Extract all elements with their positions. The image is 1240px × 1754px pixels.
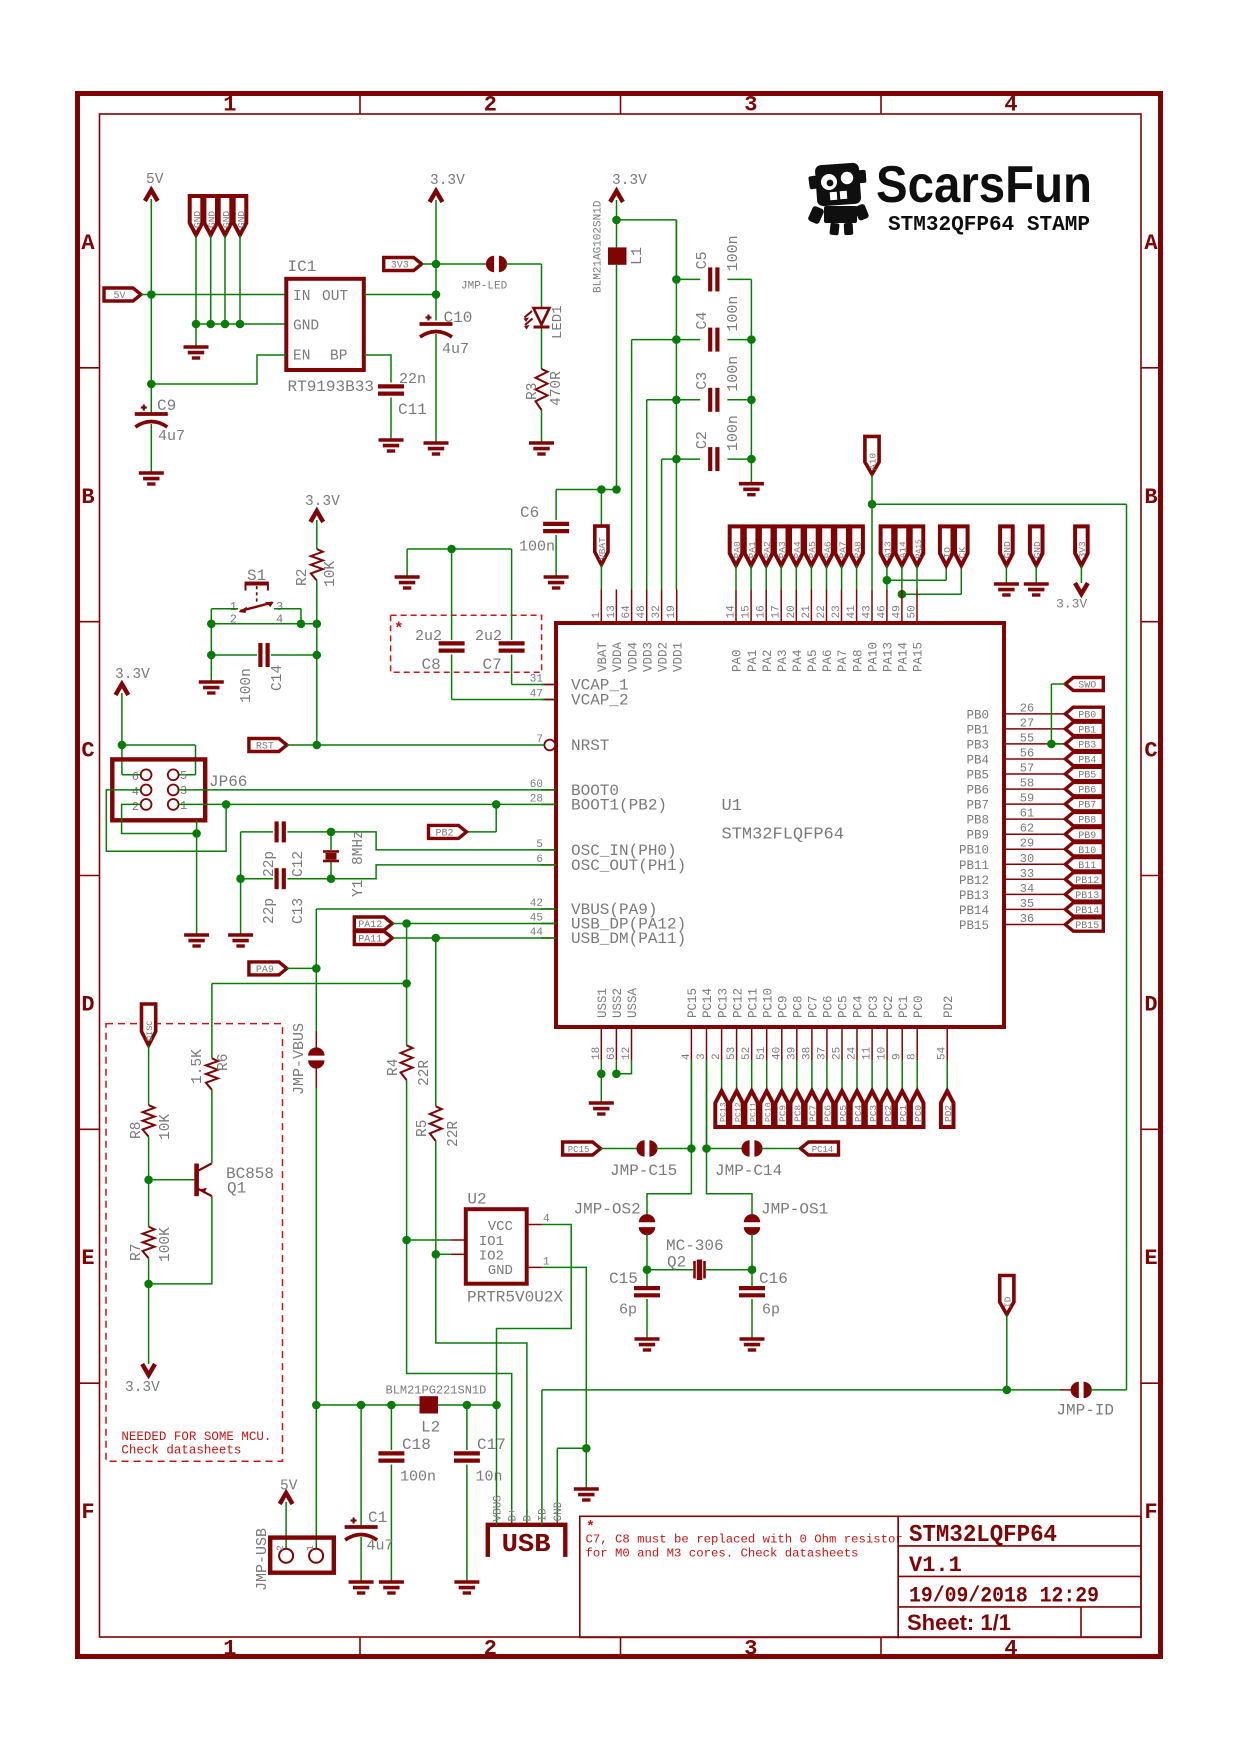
svg-text:PRTR5V0U2X: PRTR5V0U2X	[467, 1289, 563, 1307]
svg-text:PA8: PA8	[852, 541, 863, 558]
svg-text:JMP-C15: JMP-C15	[610, 1162, 677, 1180]
svg-text:4: 4	[1004, 93, 1017, 118]
svg-text:VDD2: VDD2	[656, 642, 670, 672]
svg-text:PB4: PB4	[966, 754, 989, 768]
svg-text:USS1: USS1	[596, 988, 610, 1018]
svg-text:PC0: PC0	[913, 1105, 924, 1122]
svg-text:PB7: PB7	[966, 799, 989, 813]
svg-text:IO: IO	[942, 547, 953, 559]
svg-text:R4: R4	[386, 1059, 402, 1076]
svg-text:D: D	[1144, 992, 1157, 1017]
svg-text:PB12: PB12	[1075, 876, 1099, 887]
svg-text:DISC: DISC	[145, 1021, 155, 1041]
svg-text:8MHz: 8MHz	[351, 830, 367, 865]
svg-text:C13: C13	[291, 898, 307, 924]
svg-text:MC-306: MC-306	[666, 1237, 724, 1255]
svg-text:VBAT: VBAT	[596, 641, 610, 672]
svg-text:PA8: PA8	[851, 649, 865, 672]
svg-text:GND: GND	[553, 1501, 565, 1521]
svg-text:22p: 22p	[262, 851, 278, 877]
svg-text:100n: 100n	[725, 235, 742, 271]
svg-text:40: 40	[771, 1047, 783, 1060]
svg-text:PC9: PC9	[778, 1105, 789, 1122]
svg-text:PB7: PB7	[1078, 801, 1096, 812]
svg-text:50: 50	[907, 605, 919, 618]
svg-text:A13: A13	[883, 541, 894, 558]
svg-text:A: A	[81, 231, 95, 256]
svg-text:E: E	[81, 1246, 94, 1271]
svg-text:5: 5	[180, 769, 187, 783]
svg-text:PC6: PC6	[823, 1105, 834, 1122]
svg-text:PB15: PB15	[959, 919, 989, 933]
svg-text:59: 59	[1020, 792, 1034, 806]
svg-text:GND: GND	[1002, 541, 1013, 558]
svg-text:R8: R8	[129, 1122, 145, 1139]
svg-text:23: 23	[831, 605, 843, 618]
svg-text:PA6: PA6	[822, 541, 833, 558]
svg-text:38: 38	[801, 1047, 813, 1060]
svg-text:33: 33	[1020, 867, 1034, 881]
svg-text:STM32FLQFP64: STM32FLQFP64	[722, 826, 844, 845]
svg-text:31: 31	[530, 674, 544, 686]
svg-text:Q1: Q1	[227, 1180, 246, 1198]
svg-text:OUT: OUT	[322, 289, 348, 305]
svg-text:PC4: PC4	[852, 995, 866, 1018]
svg-text:100n: 100n	[239, 668, 255, 703]
svg-text:47: 47	[530, 689, 543, 701]
svg-text:5V: 5V	[113, 291, 125, 302]
svg-text:PA0: PA0	[732, 541, 743, 558]
svg-text:VDD4: VDD4	[626, 642, 640, 672]
svg-text:22n: 22n	[399, 371, 426, 388]
svg-text:PC10: PC10	[761, 988, 775, 1018]
svg-text:15: 15	[741, 605, 753, 618]
svg-text:3.3V: 3.3V	[115, 667, 150, 683]
svg-text:470R: 470R	[549, 371, 565, 406]
svg-text:3.3V: 3.3V	[125, 1380, 160, 1396]
svg-text:46: 46	[876, 605, 888, 618]
svg-text:PC7: PC7	[807, 995, 821, 1018]
svg-text:PB12: PB12	[959, 874, 989, 888]
svg-text:VDD3: VDD3	[641, 642, 655, 672]
svg-text:PC6: PC6	[822, 995, 836, 1018]
svg-text:IN: IN	[293, 289, 310, 305]
svg-text:2: 2	[132, 800, 139, 814]
svg-text:13: 13	[606, 605, 618, 618]
svg-text:PC13: PC13	[716, 988, 730, 1018]
svg-text:PB13: PB13	[1075, 891, 1099, 902]
svg-text:D+: D+	[508, 1508, 520, 1521]
svg-text:Q2: Q2	[667, 1254, 686, 1272]
svg-text:26: 26	[1020, 701, 1034, 715]
svg-text:L1: L1	[629, 247, 646, 265]
svg-text:C3: C3	[694, 372, 711, 390]
svg-text:JMP-USB: JMP-USB	[254, 1528, 271, 1591]
svg-text:PC13: PC13	[719, 1102, 728, 1122]
svg-text:22R: 22R	[446, 1121, 462, 1147]
svg-text:JMP-C14: JMP-C14	[715, 1162, 782, 1180]
svg-text:EN: EN	[293, 349, 310, 365]
svg-text:5V: 5V	[280, 1479, 298, 1495]
svg-text:PB10: PB10	[959, 844, 989, 858]
svg-text:20: 20	[786, 605, 798, 618]
svg-text:PC3: PC3	[867, 995, 881, 1018]
svg-text:PB14: PB14	[1075, 906, 1099, 917]
svg-text:NEEDED FOR SOME MCU.: NEEDED FOR SOME MCU.	[121, 1430, 271, 1444]
svg-text:GND: GND	[236, 211, 247, 228]
svg-text:6: 6	[536, 854, 543, 866]
svg-text:PB14: PB14	[959, 904, 989, 918]
svg-text:PA11: PA11	[358, 935, 382, 946]
svg-text:D-: D-	[523, 1508, 535, 1521]
svg-text:PC1: PC1	[897, 995, 911, 1018]
svg-text:17: 17	[771, 605, 783, 618]
svg-text:PC0: PC0	[912, 995, 926, 1018]
svg-text:U2: U2	[467, 1191, 486, 1209]
svg-text:L2: L2	[421, 1419, 440, 1437]
svg-text:GND: GND	[221, 211, 232, 228]
svg-text:57: 57	[1020, 762, 1034, 776]
svg-text:6: 6	[132, 770, 139, 784]
svg-text:35: 35	[1020, 897, 1034, 911]
svg-text:PA3: PA3	[776, 649, 790, 672]
svg-text:IC1: IC1	[288, 258, 317, 276]
svg-text:PC11: PC11	[746, 988, 760, 1018]
svg-text:GND: GND	[207, 211, 218, 228]
svg-text:32: 32	[651, 605, 663, 618]
svg-text:JMP-OS1: JMP-OS1	[761, 1201, 828, 1219]
svg-text:100n: 100n	[725, 296, 742, 332]
svg-text:3.3V: 3.3V	[430, 173, 465, 189]
svg-text:28: 28	[530, 793, 543, 805]
svg-text:USSA: USSA	[626, 987, 640, 1018]
svg-text:2: 2	[276, 1545, 287, 1551]
svg-text:C5: C5	[694, 251, 711, 269]
svg-text:45: 45	[530, 913, 543, 925]
svg-text:PB0: PB0	[1078, 711, 1096, 722]
svg-text:58: 58	[1020, 777, 1034, 791]
svg-text:19/09/2018 12:29: 19/09/2018 12:29	[909, 1584, 1099, 1609]
svg-text:B: B	[81, 485, 94, 510]
svg-text:PA15: PA15	[912, 642, 926, 672]
svg-text:RT9193B33: RT9193B33	[288, 378, 374, 396]
svg-text:PA13: PA13	[882, 642, 896, 672]
svg-text:B10: B10	[1078, 846, 1096, 857]
svg-text:60: 60	[530, 779, 543, 791]
svg-text:A: A	[1144, 231, 1158, 256]
svg-text:3: 3	[180, 784, 187, 798]
svg-text:C8: C8	[422, 656, 441, 674]
svg-text:100n: 100n	[400, 1469, 436, 1486]
svg-text:PB15: PB15	[1075, 921, 1099, 932]
svg-text:PA7: PA7	[836, 649, 850, 672]
svg-text:C: C	[81, 739, 94, 764]
svg-text:R6: R6	[216, 1054, 232, 1071]
svg-text:4u7: 4u7	[367, 1538, 394, 1555]
svg-text:ID: ID	[538, 1508, 550, 1522]
svg-text:PB6: PB6	[966, 784, 989, 798]
svg-text:USB_DM(PA11): USB_DM(PA11)	[571, 930, 686, 948]
svg-text:F: F	[1144, 1500, 1157, 1525]
svg-text:VCC: VCC	[488, 1219, 513, 1235]
svg-text:C12: C12	[291, 851, 307, 877]
svg-text:19: 19	[666, 605, 678, 618]
svg-text:PB11: PB11	[959, 859, 989, 873]
svg-text:18: 18	[591, 1047, 603, 1060]
svg-text:27: 27	[1020, 716, 1034, 730]
svg-text:PA7: PA7	[837, 541, 848, 558]
svg-text:PA10: PA10	[867, 642, 881, 672]
svg-text:7: 7	[536, 734, 543, 746]
svg-text:PC5: PC5	[837, 995, 851, 1018]
svg-text:GND: GND	[1032, 541, 1043, 558]
svg-text:USS2: USS2	[611, 988, 625, 1018]
svg-text:E: E	[1144, 1246, 1157, 1271]
svg-text:6p: 6p	[619, 1302, 637, 1319]
svg-text:BOOT1(PB2): BOOT1(PB2)	[571, 796, 667, 814]
svg-text:37: 37	[816, 1047, 828, 1060]
svg-text:C15: C15	[609, 1270, 638, 1288]
svg-text:43: 43	[862, 605, 874, 618]
svg-text:PB2: PB2	[435, 829, 453, 840]
svg-text:C7: C7	[483, 656, 502, 674]
svg-text:12: 12	[621, 1047, 633, 1060]
svg-text:SWO: SWO	[1078, 681, 1096, 692]
svg-text:3: 3	[696, 1053, 708, 1060]
svg-text:PB9: PB9	[1078, 831, 1096, 842]
svg-text:24: 24	[847, 1046, 859, 1060]
svg-text:PA6: PA6	[821, 649, 835, 672]
svg-text:54: 54	[937, 1046, 949, 1060]
svg-text:C2: C2	[694, 431, 711, 449]
svg-text:63: 63	[606, 1047, 618, 1060]
svg-text:C7, C8 must be replaced with 0: C7, C8 must be replaced with 0 Ohm resis…	[586, 1533, 903, 1547]
svg-text:PB8: PB8	[966, 814, 989, 828]
svg-text:22: 22	[816, 605, 828, 618]
svg-text:PC14: PC14	[701, 988, 715, 1018]
svg-text:1: 1	[223, 1637, 236, 1662]
svg-text:PA1: PA1	[747, 541, 758, 558]
svg-text:LED1: LED1	[550, 305, 566, 339]
svg-text:2u2: 2u2	[415, 628, 442, 645]
svg-text:2u2: 2u2	[475, 628, 502, 645]
svg-text:C11: C11	[398, 401, 427, 419]
svg-text:GND: GND	[293, 319, 319, 335]
svg-text:10n: 10n	[476, 1469, 503, 1486]
svg-text:4: 4	[543, 1214, 550, 1226]
svg-text:VDD1: VDD1	[671, 642, 685, 672]
svg-text:4u7: 4u7	[158, 428, 185, 445]
svg-text:PA2: PA2	[762, 541, 773, 558]
svg-text:C18: C18	[402, 1436, 431, 1454]
svg-text:PC14: PC14	[812, 1145, 834, 1155]
svg-text:1.5K: 1.5K	[190, 1049, 206, 1084]
svg-text:BLM21AG102SN1D: BLM21AG102SN1D	[593, 200, 605, 293]
svg-text:1: 1	[223, 93, 236, 118]
svg-text:48: 48	[636, 605, 648, 618]
svg-text:2: 2	[711, 1053, 723, 1060]
svg-text:PA4: PA4	[791, 649, 805, 672]
svg-text:Check datasheets: Check datasheets	[121, 1444, 241, 1458]
svg-text:C9: C9	[157, 397, 176, 415]
svg-text:A14: A14	[898, 541, 909, 558]
svg-text:JP66: JP66	[209, 773, 247, 791]
svg-text:PC1: PC1	[898, 1105, 909, 1122]
svg-text:8: 8	[907, 1053, 919, 1060]
svg-text:49: 49	[891, 605, 903, 618]
svg-text:PA3: PA3	[777, 541, 788, 558]
svg-text:36: 36	[1020, 912, 1034, 926]
svg-text:53: 53	[726, 1047, 738, 1060]
svg-text:PC10: PC10	[765, 1102, 774, 1122]
svg-text:61: 61	[1020, 807, 1034, 821]
svg-text:4: 4	[1004, 1637, 1017, 1662]
svg-text:C16: C16	[759, 1270, 788, 1288]
svg-text:56: 56	[1020, 747, 1034, 761]
svg-text:C17: C17	[477, 1436, 506, 1454]
svg-text:PC2: PC2	[882, 995, 896, 1018]
svg-text:29: 29	[1020, 837, 1034, 851]
svg-text:9: 9	[892, 1053, 904, 1060]
svg-text:3.3V: 3.3V	[612, 173, 647, 189]
svg-text:3V3: 3V3	[1077, 541, 1088, 558]
svg-text:PA4: PA4	[792, 541, 803, 558]
svg-text:PB3: PB3	[1078, 741, 1096, 752]
svg-text:BP: BP	[330, 349, 347, 365]
svg-text:PC8: PC8	[793, 1105, 804, 1122]
svg-text:100n: 100n	[725, 415, 742, 451]
svg-text:10: 10	[877, 1047, 889, 1060]
svg-text:PC8: PC8	[792, 995, 806, 1018]
svg-text:10K: 10K	[158, 1114, 174, 1140]
svg-text:55: 55	[1020, 731, 1034, 745]
svg-text:PB8: PB8	[1078, 816, 1096, 827]
svg-text:1: 1	[180, 799, 187, 813]
svg-text:PC12: PC12	[734, 1102, 743, 1122]
svg-text:C14: C14	[270, 665, 286, 691]
svg-text:3.3V: 3.3V	[1056, 597, 1087, 612]
svg-text:C4: C4	[694, 312, 711, 330]
svg-text:62: 62	[1020, 822, 1034, 836]
svg-text:PB5: PB5	[1078, 771, 1096, 782]
svg-text:5V: 5V	[146, 172, 164, 188]
svg-text:30: 30	[1020, 852, 1034, 866]
svg-text:PC2: PC2	[883, 1105, 894, 1122]
svg-text:34: 34	[1020, 882, 1034, 896]
svg-text:PB1: PB1	[966, 723, 989, 737]
svg-text:JMP-VBUS: JMP-VBUS	[291, 1023, 308, 1095]
svg-text:1: 1	[306, 1545, 317, 1551]
svg-text:JMP-ID: JMP-ID	[1056, 1402, 1114, 1420]
svg-text:GND: GND	[192, 211, 203, 228]
svg-text:PA5: PA5	[806, 649, 820, 672]
svg-text:A10: A10	[868, 453, 879, 470]
svg-text:3: 3	[744, 93, 757, 118]
svg-text:3: 3	[744, 1637, 757, 1662]
svg-text:PC7: PC7	[808, 1105, 819, 1122]
svg-text:100K: 100K	[158, 1227, 174, 1262]
svg-text:PD2: PD2	[943, 1105, 954, 1122]
svg-text:B11: B11	[1078, 861, 1096, 872]
svg-text:V1.1: V1.1	[909, 1553, 962, 1578]
svg-text:ID: ID	[1002, 1296, 1013, 1308]
svg-text:44: 44	[530, 927, 544, 939]
svg-text:VBUS: VBUS	[492, 1495, 504, 1522]
svg-text:2: 2	[484, 1637, 497, 1662]
svg-text:ScarsFun: ScarsFun	[876, 156, 1092, 214]
svg-text:22R: 22R	[417, 1060, 433, 1086]
svg-text:R5: R5	[415, 1120, 431, 1137]
svg-text:52: 52	[741, 1047, 753, 1060]
svg-text:21: 21	[801, 605, 813, 619]
svg-text:PC15: PC15	[568, 1145, 590, 1155]
svg-text:C: C	[1144, 739, 1157, 764]
svg-text:PB0: PB0	[966, 708, 989, 722]
svg-text:PC4: PC4	[853, 1105, 864, 1122]
svg-text:BLM21PG221SN1D: BLM21PG221SN1D	[386, 1384, 487, 1398]
svg-text:PA1: PA1	[746, 649, 760, 672]
svg-text:100n: 100n	[519, 539, 555, 556]
svg-text:39: 39	[786, 1047, 798, 1060]
svg-text:VCAP_2: VCAP_2	[571, 692, 629, 710]
svg-text:PA2: PA2	[761, 649, 775, 672]
svg-text:*: *	[394, 620, 404, 638]
svg-text:PA15: PA15	[915, 539, 924, 558]
svg-text:51: 51	[756, 1046, 768, 1060]
svg-text:6p: 6p	[762, 1302, 780, 1319]
svg-text:PB6: PB6	[1078, 786, 1096, 797]
svg-text:100n: 100n	[725, 356, 742, 392]
svg-text:PA12: PA12	[358, 920, 382, 931]
svg-text:RST: RST	[256, 742, 274, 753]
svg-text:PC11: PC11	[750, 1102, 759, 1122]
svg-text:3V3: 3V3	[391, 261, 409, 272]
svg-text:C10: C10	[444, 309, 473, 327]
svg-text:JMP-OS2: JMP-OS2	[574, 1201, 641, 1219]
svg-text:F: F	[81, 1500, 94, 1525]
svg-text:PB3: PB3	[966, 738, 989, 752]
svg-text:PD2: PD2	[942, 995, 956, 1018]
svg-text:C1: C1	[368, 1509, 387, 1527]
svg-text:22p: 22p	[262, 898, 278, 924]
svg-text:25: 25	[832, 1047, 844, 1060]
svg-text:GND: GND	[488, 1263, 513, 1279]
svg-text:R3: R3	[525, 383, 541, 400]
svg-text:for M0 and M3 cores. Check dat: for M0 and M3 cores. Check datasheets	[586, 1547, 859, 1561]
svg-text:JMP-LED: JMP-LED	[461, 281, 508, 293]
svg-text:PA9: PA9	[256, 965, 274, 976]
svg-text:U1: U1	[722, 797, 742, 816]
svg-text:PC9: PC9	[777, 995, 791, 1018]
svg-text:64: 64	[621, 605, 633, 619]
svg-text:STM32QFP64 STAMP: STM32QFP64 STAMP	[888, 214, 1090, 237]
svg-text:Y1: Y1	[351, 880, 367, 897]
svg-text:PC3: PC3	[868, 1105, 879, 1122]
svg-text:PA14: PA14	[897, 642, 911, 672]
svg-text:3.3V: 3.3V	[305, 494, 340, 510]
svg-text:C6: C6	[520, 504, 539, 522]
svg-text:PB5: PB5	[966, 769, 989, 783]
svg-text:VDDA: VDDA	[611, 641, 625, 672]
svg-text:STM32LQFP64: STM32LQFP64	[909, 1522, 1057, 1549]
svg-text:2: 2	[484, 93, 497, 118]
svg-text:1: 1	[591, 612, 603, 619]
svg-text:B: B	[1144, 485, 1157, 510]
svg-text:R2: R2	[295, 569, 311, 586]
svg-text:PB13: PB13	[959, 889, 989, 903]
svg-text:PC15: PC15	[686, 988, 700, 1018]
svg-text:VBAT: VBAT	[597, 537, 608, 560]
